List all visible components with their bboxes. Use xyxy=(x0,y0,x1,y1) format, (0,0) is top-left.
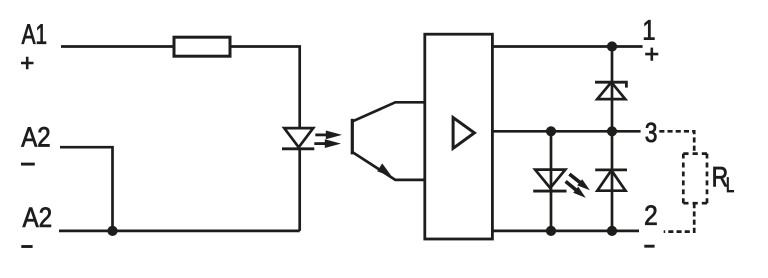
junction dot bottom rail left xyxy=(546,226,556,236)
junction dot top rail xyxy=(607,41,617,51)
bottom output rail to terminal 2 xyxy=(492,230,639,233)
top output rail to terminal 1 xyxy=(492,45,642,48)
load resistor RL dashed box bottom edge xyxy=(683,202,707,205)
status LED D4 triangle xyxy=(535,170,565,188)
terminal label 3 xyxy=(646,123,657,143)
status LED emission arrow upper xyxy=(569,174,590,190)
junction dot on bottom wire xyxy=(107,226,117,236)
terminal label 2 xyxy=(645,205,656,225)
amplifier triangle inside U1 xyxy=(453,118,474,149)
light arrow lower xyxy=(314,139,341,148)
junction dot middle rail left xyxy=(546,126,556,136)
light arrow upper xyxy=(315,131,342,140)
load label R xyxy=(714,167,728,186)
load resistor RL dashed box top edge xyxy=(683,152,707,155)
dashed wire load to terminal 2 xyxy=(664,203,695,231)
wire from A1 to resistor xyxy=(61,45,174,48)
IC box U1 xyxy=(425,34,493,239)
junction dot bottom rail right xyxy=(607,226,617,236)
zener diode D2 triangle xyxy=(597,82,625,99)
diode D3 cathode bar xyxy=(595,168,627,171)
minus sign at terminal 2 xyxy=(644,245,654,248)
plus sign at A1 xyxy=(21,57,34,70)
zener diode D2 cathode bar with hook xyxy=(595,82,626,87)
dashed wire terminal 3 to load xyxy=(659,131,694,153)
phototransistor Q1 emitter arrow xyxy=(377,163,392,177)
load resistor RL dashed box right edge xyxy=(706,154,709,204)
status LED emission arrow lower xyxy=(566,181,586,198)
load label L subscript xyxy=(727,178,734,193)
phototransistor Q1 base bar xyxy=(351,119,354,155)
plus sign at terminal 1 xyxy=(645,48,658,61)
minus sign at upper A2 xyxy=(21,163,35,166)
load resistor RL dashed box left edge xyxy=(682,154,685,204)
vertical branch wire x=612 xyxy=(611,47,614,231)
wire LED cathode to bottom wire xyxy=(298,149,301,231)
LED D1 cathode bar xyxy=(282,147,314,150)
wire from upper A2 down to junction xyxy=(60,147,113,231)
bottom wire from lower A2 xyxy=(59,230,300,233)
diode D3 triangle xyxy=(597,170,625,191)
middle output rail to terminal 3 xyxy=(492,130,640,133)
resistor R1 xyxy=(174,37,230,56)
terminal label 1 xyxy=(644,20,654,40)
vertical branch wire x=551 xyxy=(550,131,553,231)
LED D1 optocoupler input diode triangle xyxy=(284,128,313,147)
wire from resistor to input LED branch xyxy=(230,47,300,129)
minus sign at lower A2 xyxy=(21,245,32,248)
terminal label A2 (lower) xyxy=(23,207,51,227)
phototransistor Q1 collector xyxy=(352,102,425,122)
phototransistor Q1 emitter xyxy=(352,152,425,180)
status LED D4 cathode bar xyxy=(533,190,566,193)
terminal label A1 xyxy=(22,24,46,44)
terminal label A2 (upper) xyxy=(21,127,49,147)
junction dot middle rail right xyxy=(607,126,617,136)
